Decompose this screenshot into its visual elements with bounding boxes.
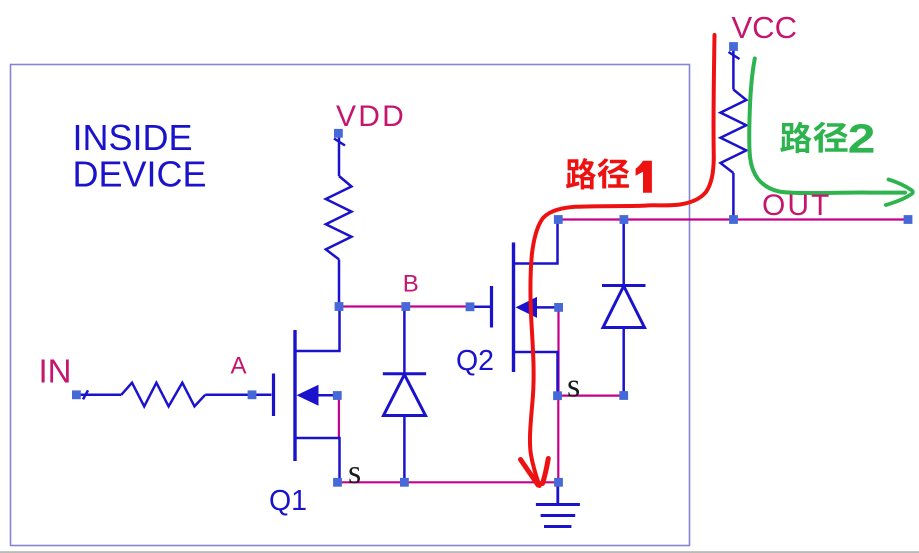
svg-text:s: s bbox=[567, 368, 580, 405]
svg-text:INSIDE: INSIDE bbox=[73, 117, 193, 158]
svg-text:VDD: VDD bbox=[336, 100, 406, 133]
svg-text:OUT: OUT bbox=[762, 189, 831, 222]
svg-text:s: s bbox=[348, 454, 361, 491]
svg-text:VCC: VCC bbox=[732, 10, 797, 45]
svg-text:B: B bbox=[403, 271, 419, 298]
svg-text:DEVICE: DEVICE bbox=[73, 153, 207, 194]
svg-text:IN: IN bbox=[39, 353, 72, 390]
svg-text:Q2: Q2 bbox=[456, 345, 494, 377]
svg-text:Q1: Q1 bbox=[269, 485, 307, 517]
svg-text:A: A bbox=[231, 353, 247, 380]
